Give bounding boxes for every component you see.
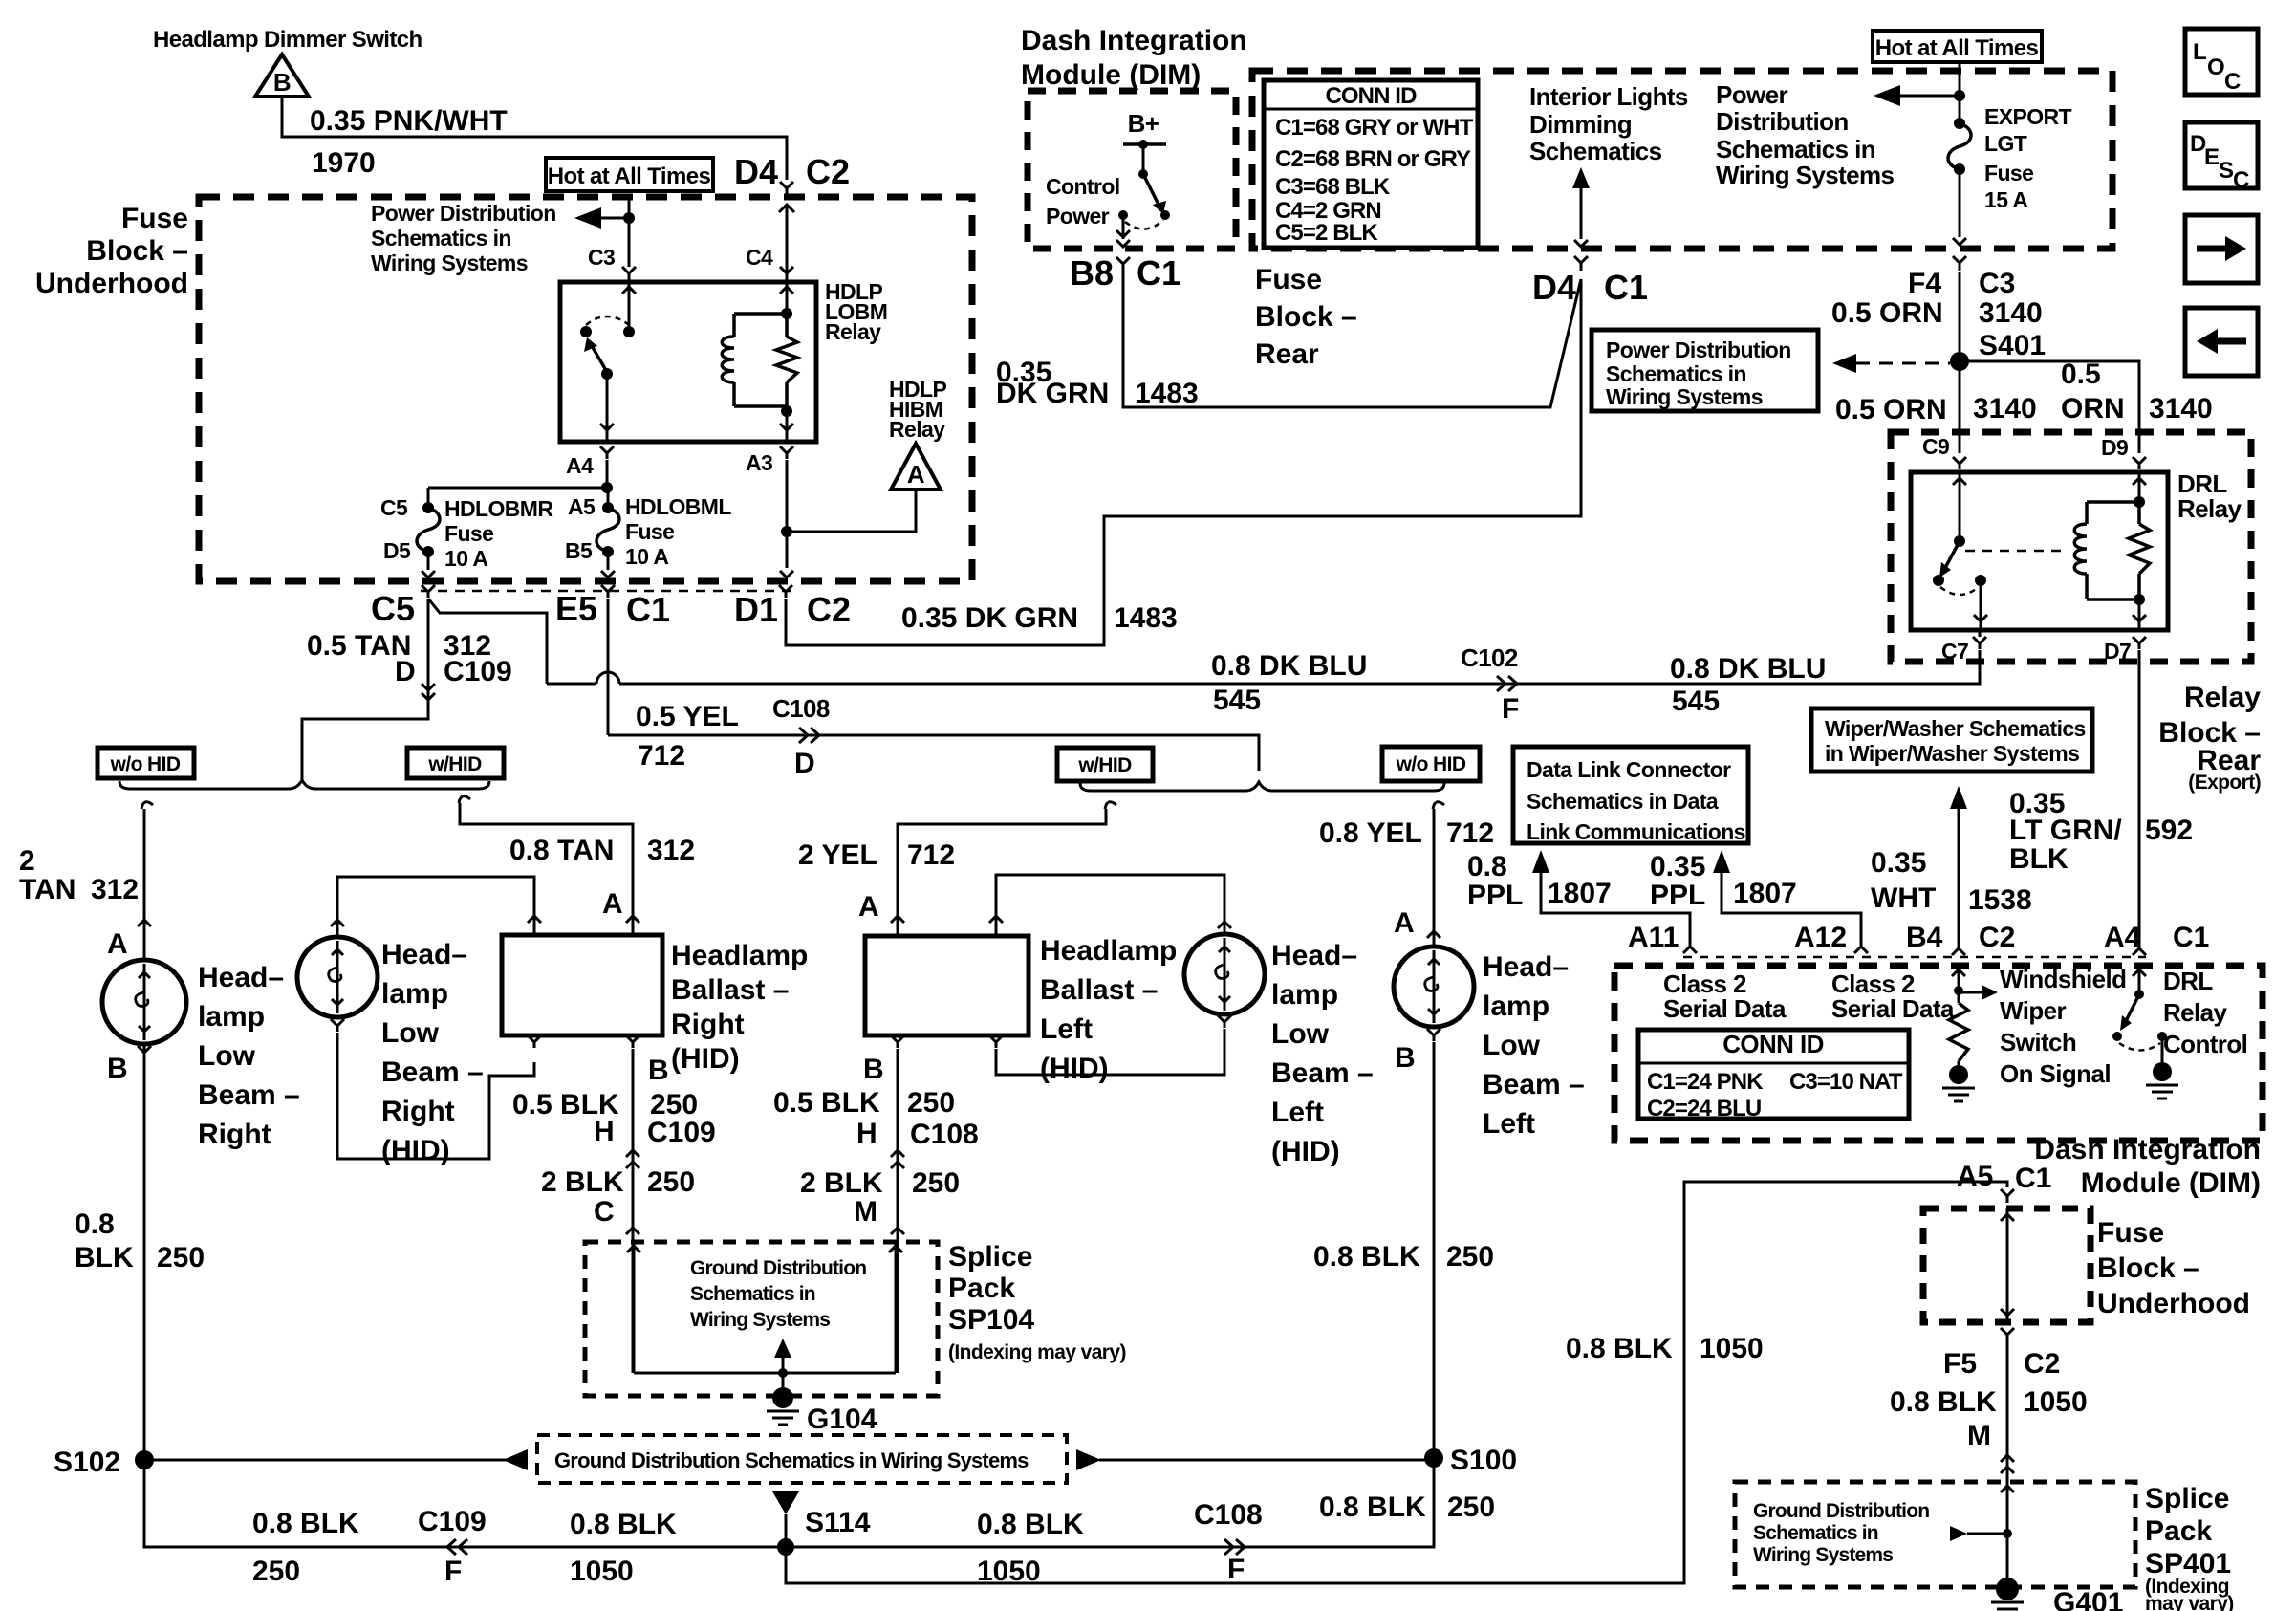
svg-text:M: M xyxy=(854,1196,877,1228)
svg-text:Ground Distribution: Ground Distribution xyxy=(1753,1500,1929,1522)
svg-text:0.5 YEL: 0.5 YEL xyxy=(636,701,739,732)
svg-text:0.35: 0.35 xyxy=(1871,847,1926,879)
dashed box Relay Block - Rear xyxy=(1891,432,2251,662)
svg-text:0.8 BLK: 0.8 BLK xyxy=(1566,1333,1673,1364)
svg-text:Low: Low xyxy=(1483,1030,1541,1061)
ballast box Headlamp Ballast - Left (HID) xyxy=(865,936,1029,1035)
wire 0.35 PNK/WHT 1970 from triangle B to fuse block D4 xyxy=(282,97,787,180)
wire A3 to HIBM relay branch and D1 xyxy=(786,460,789,568)
dashed box Splice Pack SP401 xyxy=(1735,1482,2135,1587)
wire through fuse block underhood xyxy=(2006,1208,2009,1322)
svg-text:Windshield: Windshield xyxy=(2000,965,2126,993)
svg-text:A3: A3 xyxy=(746,450,772,475)
svg-text:(Indexing may vary): (Indexing may vary) xyxy=(948,1341,1126,1363)
connector F5/C2 below fuse block underhood xyxy=(2001,1328,2014,1341)
svg-text:A: A xyxy=(858,891,879,923)
svg-text:0.8 BLK: 0.8 BLK xyxy=(570,1509,677,1540)
relay box DRL Relay xyxy=(1911,472,2168,630)
connector B lamp left HID xyxy=(1218,1015,1231,1028)
wire S102 to ground distribution schematics xyxy=(144,1459,526,1462)
svg-text:C2: C2 xyxy=(2024,1348,2060,1380)
connector C into SP104 xyxy=(626,1228,639,1234)
connector A lamp left HID xyxy=(1218,922,1231,928)
svg-text:S100: S100 xyxy=(1450,1445,1517,1476)
fuse HDLOBMR 10A xyxy=(427,488,430,504)
svg-text:CONN ID: CONN ID xyxy=(1722,1030,1824,1058)
svg-text:Power Distribution: Power Distribution xyxy=(1606,337,1791,362)
svg-text:Hot at All Times: Hot at All Times xyxy=(1875,35,2039,61)
wire 0.35 DK GRN 1483 from B8 to fuse block rear D4 xyxy=(1123,272,1581,407)
svg-text:C109: C109 xyxy=(647,1117,716,1148)
svg-text:Underhood: Underhood xyxy=(2097,1288,2250,1319)
svg-text:250: 250 xyxy=(647,1166,695,1198)
svg-text:PPL: PPL xyxy=(1467,880,1523,911)
wire lamp right B to S102 xyxy=(143,1046,146,1460)
arrow interior lights dimming (double ended) xyxy=(1572,167,1590,188)
svg-text:D1: D1 xyxy=(734,590,778,629)
svg-text:D: D xyxy=(794,748,815,779)
svg-text:E5: E5 xyxy=(555,589,597,628)
svg-text:Block –: Block – xyxy=(1255,301,1357,333)
svg-text:0.8 BLK: 0.8 BLK xyxy=(1313,1241,1420,1273)
svg-text:SP104: SP104 xyxy=(948,1304,1034,1336)
svg-text:Wiring Systems: Wiring Systems xyxy=(1753,1544,1893,1566)
svg-text:C1: C1 xyxy=(626,590,670,629)
svg-text:C109: C109 xyxy=(418,1506,487,1537)
connector A ballast left xyxy=(891,916,904,923)
DRL relay switch output to C7 xyxy=(1980,580,1982,628)
wire hook to 0.8 TAN ballast right (w/HID) xyxy=(459,796,470,803)
svg-text:250: 250 xyxy=(252,1556,300,1587)
svg-text:PPL: PPL xyxy=(1650,880,1705,911)
svg-text:1483: 1483 xyxy=(1135,378,1199,409)
arrow to power distribution schematics xyxy=(574,207,601,229)
svg-text:ORN: ORN xyxy=(2061,393,2125,425)
svg-text:Ballast –: Ballast – xyxy=(1040,974,1158,1006)
boxed note Wiper/Washer Schematics in Wiper/Washer Systems xyxy=(1811,708,2092,772)
svg-text:C1: C1 xyxy=(1137,253,1180,293)
svg-text:A12: A12 xyxy=(1794,922,1847,953)
lamp Headlamp Low Beam - Right xyxy=(102,960,186,1044)
svg-text:CONN ID: CONN ID xyxy=(1325,83,1417,109)
svg-text:Dash Integration: Dash Integration xyxy=(1021,25,1247,56)
svg-text:Schematics in: Schematics in xyxy=(690,1283,815,1305)
wire 0.5 YEL 712 from E5/C1 to w-HID brace xyxy=(608,735,1259,771)
connector pin2 ballast left xyxy=(989,916,1003,923)
svg-text:C1=68 GRY or WHT: C1=68 GRY or WHT xyxy=(1275,115,1474,141)
svg-text:2 BLK: 2 BLK xyxy=(541,1166,624,1198)
svg-text:w/o HID: w/o HID xyxy=(110,753,181,775)
wire hook to 2 YEL ballast left (w/HID) xyxy=(1105,802,1116,809)
brace splitting YEL wire to w/HID and w/o HID xyxy=(1080,782,1444,791)
svg-text:C2=24 BLU: C2=24 BLU xyxy=(1647,1096,1761,1121)
svg-text:Schematics: Schematics xyxy=(1529,137,1662,165)
svg-text:Left: Left xyxy=(1271,1097,1324,1128)
svg-text:C: C xyxy=(2233,167,2249,193)
svg-text:Block –: Block – xyxy=(2097,1252,2199,1284)
svg-text:1050: 1050 xyxy=(570,1556,634,1587)
svg-text:A: A xyxy=(907,460,925,489)
svg-text:C102: C102 xyxy=(1461,643,1518,672)
svg-text:H: H xyxy=(594,1116,615,1147)
svg-text:Relay: Relay xyxy=(2184,682,2261,713)
svg-text:F: F xyxy=(444,1556,462,1587)
triangle A HDLP HIBM Relay xyxy=(891,444,941,490)
svg-text:LT GRN/: LT GRN/ xyxy=(2009,815,2122,846)
wire C7 to 0.8 DK BLU 545 xyxy=(1979,630,1982,637)
svg-text:Serial Data: Serial Data xyxy=(1831,994,1955,1023)
ground G401 xyxy=(1996,1578,2019,1600)
svg-text:LGT: LGT xyxy=(1984,131,2027,156)
svg-text:C2: C2 xyxy=(806,152,850,191)
icon left arrow box xyxy=(2185,308,2258,376)
svg-text:1483: 1483 xyxy=(1114,602,1178,634)
svg-text:C2: C2 xyxy=(1979,922,2015,953)
svg-text:0.8 BLK: 0.8 BLK xyxy=(977,1509,1084,1540)
connector E5 below fuse block xyxy=(601,585,615,598)
dashed connector line A11-A12-B4-C2-A4-C1 xyxy=(1683,956,2146,959)
box w/o HID (left side) xyxy=(1382,747,1480,781)
svg-text:E: E xyxy=(2204,144,2220,170)
svg-text:Schematics in Data: Schematics in Data xyxy=(1527,789,1719,814)
svg-text:Fuse: Fuse xyxy=(625,519,674,544)
svg-text:Wiper: Wiper xyxy=(2000,996,2066,1025)
svg-text:D9: D9 xyxy=(2101,435,2128,460)
svg-text:Ground Distribution Schematics: Ground Distribution Schematics in Wiring… xyxy=(554,1448,1029,1472)
svg-text:C5=2 BLK: C5=2 BLK xyxy=(1275,220,1378,246)
svg-text:O: O xyxy=(2207,54,2224,80)
connector C109 double chevron xyxy=(422,684,435,690)
HDLP LOBM relay switch dashed throw arc xyxy=(586,316,629,325)
svg-text:Relay: Relay xyxy=(2163,998,2228,1027)
svg-text:A4: A4 xyxy=(2104,922,2141,953)
svg-text:D4: D4 xyxy=(1532,268,1576,307)
svg-text:w/HID: w/HID xyxy=(1077,754,1132,776)
svg-text:H: H xyxy=(856,1118,877,1149)
HDLP LOBM relay switch arm xyxy=(591,344,607,372)
svg-text:B: B xyxy=(648,1055,669,1086)
box w/HID (left side) xyxy=(1057,748,1153,781)
svg-text:0.5 BLK: 0.5 BLK xyxy=(773,1087,880,1119)
icon DESC box xyxy=(2185,122,2258,188)
HDLP LOBM relay switch common xyxy=(628,282,631,330)
svg-text:Fuse: Fuse xyxy=(1255,264,1322,295)
svg-text:545: 545 xyxy=(1672,686,1720,717)
svg-text:S: S xyxy=(2219,158,2234,184)
DIM wiper switch signal input xyxy=(1958,966,1960,1003)
connector pin2 ballast right xyxy=(528,916,541,923)
svg-text:Headlamp Dimmer Switch: Headlamp Dimmer Switch xyxy=(153,27,422,53)
connector D4/C2 into fuse block xyxy=(780,182,793,196)
arrow to ground distribution schematics (SP401) xyxy=(1967,1533,2007,1535)
svg-text:Power: Power xyxy=(1716,80,1788,109)
hop over E5 vertical xyxy=(596,672,619,684)
wire HIBM relay to A3 junction xyxy=(787,490,916,532)
svg-text:545: 545 xyxy=(1213,685,1261,716)
fuse HDLOBML 10A xyxy=(607,488,610,504)
svg-text:B5: B5 xyxy=(565,538,593,563)
svg-text:C: C xyxy=(2224,69,2241,95)
svg-text:Hot at All Times: Hot at All Times xyxy=(548,163,711,189)
svg-text:Relay: Relay xyxy=(825,319,881,344)
arrow to power distribution (rear) xyxy=(1874,85,1900,106)
svg-text:A: A xyxy=(107,928,128,960)
connector B ballast left xyxy=(891,1035,904,1048)
svg-text:F4: F4 xyxy=(1908,268,1941,299)
connector D7 xyxy=(2133,637,2146,649)
svg-text:Beam –: Beam – xyxy=(1483,1069,1585,1100)
svg-text:w/o HID: w/o HID xyxy=(1396,753,1466,775)
svg-text:Fuse: Fuse xyxy=(2097,1217,2164,1249)
svg-text:Head–: Head– xyxy=(1483,951,1569,983)
wire A12 0.35 PPL 1807 with up arrow xyxy=(1713,850,1730,873)
DRL relay coil and resistor xyxy=(2138,472,2141,502)
dashed box Dash Integration Module top xyxy=(1028,91,1236,249)
DIM DRL relay control switch xyxy=(2138,966,2141,992)
svg-text:in Wiper/Washer Systems: in Wiper/Washer Systems xyxy=(1825,741,2079,766)
svg-text:250: 250 xyxy=(912,1167,960,1199)
svg-text:F: F xyxy=(1502,693,1519,725)
svg-text:250: 250 xyxy=(907,1087,955,1119)
fuse EXPORT LGT 15A xyxy=(1954,118,1965,129)
svg-text:lamp: lamp xyxy=(381,978,448,1010)
splice S401 xyxy=(1950,352,1969,371)
wire ballast left to ground C108 xyxy=(897,1049,899,1373)
DIM control power output xyxy=(1122,215,1125,239)
connector A lamp low beam left xyxy=(1427,931,1440,938)
svg-text:lamp: lamp xyxy=(1271,979,1338,1011)
dashed box Fuse Block - Rear xyxy=(1252,71,2112,249)
svg-text:Pack: Pack xyxy=(948,1273,1015,1304)
wire S401 to D9 xyxy=(1960,361,2139,453)
svg-text:Dash Integration: Dash Integration xyxy=(2034,1134,2261,1165)
resistor (wiper switch pulldown) xyxy=(1949,1003,1968,1061)
connector B lamp low beam right xyxy=(138,1046,151,1058)
wire 0.5 YEL from E5 down xyxy=(607,599,610,735)
svg-text:lamp: lamp xyxy=(1483,991,1549,1022)
svg-text:C109: C109 xyxy=(444,656,512,687)
svg-text:0.8: 0.8 xyxy=(1467,851,1507,882)
wire B4 0.35 WHT 1538 with up arrow xyxy=(1950,786,1967,809)
svg-text:Switch: Switch xyxy=(2000,1028,2076,1056)
connector B ballast right xyxy=(528,1035,541,1048)
svg-text:10 A: 10 A xyxy=(625,544,668,569)
svg-text:TAN: TAN xyxy=(19,874,76,905)
dashed box Fuse Block - Underhood (small) xyxy=(1923,1208,2090,1322)
svg-text:Beam –: Beam – xyxy=(381,1056,484,1088)
svg-text:1050: 1050 xyxy=(1700,1333,1764,1364)
svg-text:B: B xyxy=(273,68,291,97)
svg-text:(HID): (HID) xyxy=(671,1043,740,1075)
svg-text:Distribution: Distribution xyxy=(1716,107,1849,136)
svg-text:15 A: 15 A xyxy=(1984,187,2027,212)
svg-text:A4: A4 xyxy=(566,453,594,478)
lamp Headlamp Low Beam - Left xyxy=(1394,947,1474,1027)
connector D4/C1 below fuse block rear xyxy=(1574,256,1588,271)
brace splitting TAN wire to w/o HID and w/HID xyxy=(119,780,489,789)
svg-text:(HID): (HID) xyxy=(1040,1053,1109,1084)
svg-text:Ballast –: Ballast – xyxy=(671,974,789,1006)
wire C3 feed inside fuse block xyxy=(628,197,631,267)
svg-text:712: 712 xyxy=(1446,817,1494,849)
svg-text:712: 712 xyxy=(638,740,685,772)
svg-text:Schematics in: Schematics in xyxy=(1606,361,1746,386)
svg-text:WHT: WHT xyxy=(1871,882,1936,914)
svg-text:Data Link Connector: Data Link Connector xyxy=(1527,757,1731,782)
svg-text:may vary): may vary) xyxy=(2145,1593,2234,1611)
svg-text:BLK: BLK xyxy=(2009,843,2069,875)
svg-text:w/HID: w/HID xyxy=(427,753,482,775)
connector A ballast right xyxy=(626,916,639,923)
svg-text:312: 312 xyxy=(647,835,695,866)
ballast box Headlamp Ballast - Right (HID) xyxy=(502,935,662,1035)
dashed box Fuse Block - Underhood xyxy=(199,197,972,581)
svg-text:C3=68 BLK: C3=68 BLK xyxy=(1275,174,1391,200)
svg-text:C1=24 PNK: C1=24 PNK xyxy=(1647,1069,1764,1095)
svg-text:Head–: Head– xyxy=(381,939,467,970)
svg-text:Fuse: Fuse xyxy=(121,203,188,234)
svg-text:3140: 3140 xyxy=(1979,297,2043,329)
DIM control power switch xyxy=(1123,142,1166,146)
connector F4/C3 below fuse block rear xyxy=(1953,256,1966,271)
svg-text:0.35: 0.35 xyxy=(1650,851,1705,882)
svg-text:B8: B8 xyxy=(1070,253,1114,293)
svg-text:Schematics in: Schematics in xyxy=(371,226,511,250)
svg-text:B: B xyxy=(1395,1042,1416,1074)
icon right arrow box xyxy=(2185,215,2258,283)
HDLP LOBM relay switch fixed contact xyxy=(580,326,592,337)
svg-text:Power: Power xyxy=(1046,204,1110,229)
svg-text:C5: C5 xyxy=(380,495,408,520)
dashed box Splice Pack SP104 xyxy=(585,1242,938,1396)
relay box HDLP LOBM Relay xyxy=(560,282,816,442)
connector C4 into HDLP LOBM relay xyxy=(780,267,793,280)
svg-text:C108: C108 xyxy=(1194,1499,1263,1531)
boxed note Data Link Connector Schematics in Data Link Communications xyxy=(1513,747,1748,843)
HDLP LOBM relay switch output to A4 xyxy=(606,374,609,440)
wire S401 down to C9 xyxy=(1959,361,1961,453)
svg-text:312: 312 xyxy=(91,874,139,905)
wire ballast output to lamp right HID xyxy=(337,877,534,920)
svg-text:Headlamp: Headlamp xyxy=(1040,935,1177,967)
wire S114 to fuse block underhood A5 xyxy=(786,1182,2007,1583)
wire 0.35 DK GRN 1483 from D1 to DIM D4/C1 xyxy=(786,279,1581,645)
connector D9 xyxy=(2133,457,2146,469)
svg-text:C108: C108 xyxy=(910,1119,979,1150)
dashed connector line C5-E5-D1 xyxy=(421,590,793,593)
connector bottom-right ballast right xyxy=(626,1035,639,1048)
svg-text:Head–: Head– xyxy=(1271,940,1357,971)
svg-text:0.8 DK BLU: 0.8 DK BLU xyxy=(1211,650,1367,682)
svg-text:1970: 1970 xyxy=(312,147,376,179)
svg-text:Interior Lights: Interior Lights xyxy=(1529,82,1688,111)
box Hot at All Times (rear) xyxy=(1873,31,2042,62)
svg-text:C4: C4 xyxy=(746,245,773,270)
svg-text:A: A xyxy=(602,888,623,920)
connector C7 xyxy=(1973,637,1986,649)
wire into SP401 to ground G401 xyxy=(2006,1482,2009,1582)
splice S114 xyxy=(772,1491,799,1514)
svg-text:0.8 BLK: 0.8 BLK xyxy=(1319,1491,1426,1523)
svg-text:Link Communications: Link Communications xyxy=(1527,819,1745,844)
wire TAN to w/o-w/HID brace xyxy=(302,599,428,782)
DRL relay switch arm xyxy=(1945,541,1960,568)
svg-text:Schematics in: Schematics in xyxy=(1716,135,1875,163)
connector M into SP104 xyxy=(891,1228,904,1234)
svg-text:Head–: Head– xyxy=(198,962,284,993)
svg-text:C1: C1 xyxy=(1604,268,1648,307)
svg-text:250: 250 xyxy=(1446,1241,1494,1273)
svg-text:Low: Low xyxy=(1271,1018,1330,1050)
connector A lamp low beam right xyxy=(138,920,151,926)
ground (DRL relay control) xyxy=(2161,1036,2164,1063)
svg-text:0.5 ORN: 0.5 ORN xyxy=(1835,394,1947,425)
svg-text:0.8 YEL: 0.8 YEL xyxy=(1319,817,1422,849)
svg-text:2: 2 xyxy=(19,845,35,877)
svg-text:Schematics in: Schematics in xyxy=(1753,1522,1878,1544)
connector A3 below relay xyxy=(780,446,793,459)
wire A11 0.8 PPL 1807 with up arrow xyxy=(1532,850,1549,873)
svg-text:Pack: Pack xyxy=(2145,1515,2212,1547)
svg-text:DRL: DRL xyxy=(2163,967,2213,995)
svg-text:DK GRN: DK GRN xyxy=(996,378,1109,409)
HDLP LOBM relay coil and resistor xyxy=(786,282,789,314)
svg-text:(HID): (HID) xyxy=(381,1135,450,1166)
svg-text:C7: C7 xyxy=(1941,639,1968,664)
wire D7 to DIM C1 (592) xyxy=(2138,650,2141,950)
svg-text:Low: Low xyxy=(198,1040,256,1072)
svg-text:G401: G401 xyxy=(2053,1587,2123,1611)
connector C109 (ground) double chevron xyxy=(626,1150,639,1157)
svg-text:250: 250 xyxy=(157,1242,205,1274)
svg-text:S401: S401 xyxy=(1979,330,2046,361)
dashed box Dash Integration Module (DIM) bottom xyxy=(1614,966,2263,1141)
ground G104 xyxy=(782,1373,785,1388)
DRL relay dashed control line xyxy=(1965,550,2069,553)
svg-text:G104: G104 xyxy=(807,1404,877,1435)
svg-text:Right: Right xyxy=(671,1009,745,1040)
svg-text:Power Distribution: Power Distribution xyxy=(371,201,556,226)
wire hook to headlamp low beam right (w/o HID) xyxy=(141,802,153,809)
svg-text:Headlamp: Headlamp xyxy=(671,940,808,971)
svg-text:A5: A5 xyxy=(1957,1161,1993,1192)
svg-text:3140: 3140 xyxy=(1973,393,2037,425)
splice S102 xyxy=(135,1450,154,1469)
CONN ID table (fuse block rear) xyxy=(1264,80,1478,248)
svg-text:Serial Data: Serial Data xyxy=(1663,994,1787,1023)
svg-text:Beam –: Beam – xyxy=(1271,1057,1374,1089)
connector triangle B (headlamp dimmer switch) xyxy=(255,54,309,97)
connector M into SP401 double chevron xyxy=(2001,1455,2014,1462)
wire lamp left B to S100 xyxy=(1433,1042,1436,1545)
svg-text:Fuse: Fuse xyxy=(444,521,493,546)
svg-text:C2=68 BRN or GRY: C2=68 BRN or GRY xyxy=(1275,146,1471,172)
svg-text:D7: D7 xyxy=(2104,639,2131,664)
svg-text:D4: D4 xyxy=(734,152,778,191)
connector C5 below fuse block xyxy=(422,585,435,598)
svg-text:592: 592 xyxy=(2145,815,2193,846)
connector C108 (ground) double chevron xyxy=(891,1150,904,1157)
connector A lamp right HID xyxy=(331,920,344,926)
ground (wiper pulldown) xyxy=(1958,1061,1960,1066)
DRL relay switch common xyxy=(1959,472,1961,539)
svg-text:250: 250 xyxy=(1447,1491,1495,1523)
connector C3 into HDLP LOBM relay xyxy=(622,267,636,280)
svg-text:BLK: BLK xyxy=(75,1242,134,1274)
svg-text:Left: Left xyxy=(1483,1108,1535,1140)
wire A4 to fuses xyxy=(428,487,607,490)
svg-text:C2: C2 xyxy=(807,590,851,629)
